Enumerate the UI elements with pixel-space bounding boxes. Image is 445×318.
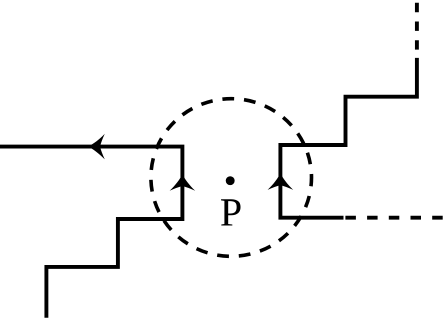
wire: dashed continuation of right wire at top right (415, 3, 419, 51)
label P (221, 199, 240, 225)
wire: dashed continuation of right wire at bottom right (345, 216, 443, 220)
arrowhead: current direction on left vertical wire inside loop (pointing up) (170, 174, 196, 191)
arrowhead: current direction on left horizontal wire (pointing left) (88, 134, 105, 160)
wire: right current path solid part (from dashes, left, up through loop, staircase up-right) (280, 58, 417, 218)
wire: left current path (staircase from bottom edge up through loop, exits left edge) (0, 147, 182, 318)
node: dashed Amperian loop (circle) centred on P (151, 99, 312, 257)
node P: field point dot (226, 176, 235, 185)
arrowhead: current direction on right vertical wire inside loop (pointing up) (268, 173, 294, 190)
